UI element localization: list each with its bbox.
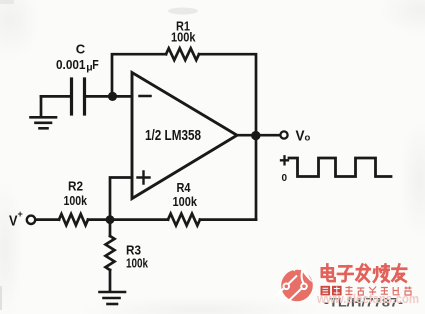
- svg-text:100k: 100k: [173, 194, 198, 209]
- svg-text:0: 0: [282, 173, 288, 184]
- svg-text:o: o: [305, 133, 311, 144]
- svg-text:100k: 100k: [64, 193, 88, 208]
- svg-text:F: F: [92, 57, 99, 72]
- svg-text:V: V: [9, 214, 18, 230]
- svg-text:1/2 LM358: 1/2 LM358: [145, 128, 201, 144]
- svg-text:R2: R2: [68, 179, 83, 194]
- svg-text:C: C: [76, 42, 86, 57]
- svg-text:100k: 100k: [126, 256, 149, 271]
- svg-text:V: V: [296, 129, 305, 145]
- svg-text:www.elecfans.com: www.elecfans.com: [316, 291, 419, 306]
- svg-text:R4: R4: [177, 180, 192, 195]
- svg-text:100k: 100k: [171, 30, 196, 45]
- svg-text:0.001: 0.001: [56, 57, 86, 72]
- svg-text:+: +: [18, 209, 23, 219]
